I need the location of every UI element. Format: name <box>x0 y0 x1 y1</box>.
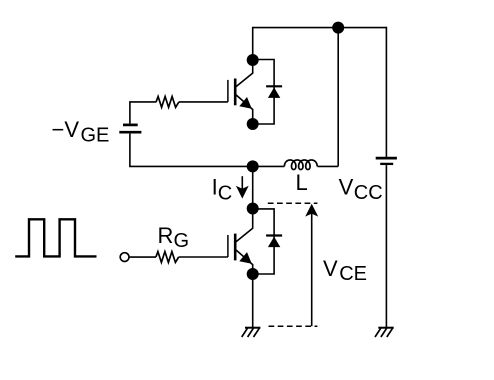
svg-text:CC: CC <box>354 182 383 204</box>
svg-text:G: G <box>174 230 190 252</box>
battery VCC negative plate (short) <box>380 163 393 165</box>
terminal input circle <box>120 253 129 262</box>
svg-text:V: V <box>339 175 354 200</box>
resistor R1 (upper gate) <box>156 97 179 108</box>
dashed reference bottom (ground level) <box>269 325 318 327</box>
wire RG to Q2 gate <box>179 256 228 258</box>
wire inductor to riser <box>317 165 338 167</box>
wire node to inductor <box>253 165 285 167</box>
IGBT Q1 channel bar <box>234 79 237 106</box>
wire top rail to upper collector <box>252 27 254 60</box>
svg-text:L: L <box>296 170 308 195</box>
IGBT Q2 gate bar <box>227 235 229 257</box>
node upper emitter <box>247 118 259 130</box>
wire inductor right riser <box>337 28 339 167</box>
dashed reference top (collector level) <box>268 202 318 204</box>
measurement arrow VCE <box>311 214 313 327</box>
IGBT Q1 gate bar <box>227 80 229 102</box>
wire upper gate lead <box>130 102 156 124</box>
current arrow IC <box>241 176 243 189</box>
svg-text:R: R <box>158 223 174 248</box>
node emitter-inductor node <box>247 160 259 172</box>
svg-text:−V: −V <box>52 117 80 142</box>
svg-text:V: V <box>323 256 338 281</box>
IGBT Q1 emitter lead <box>236 95 253 124</box>
battery -VGE negative plate (short) <box>123 124 138 127</box>
svg-text:GE: GE <box>81 124 110 146</box>
wire resistor R1 to Q1 gate <box>179 101 228 103</box>
wire Q2 emitter to ground <box>252 274 254 327</box>
battery VCC positive plate (long) <box>376 157 397 160</box>
battery -VGE positive plate (long) <box>119 131 141 134</box>
svg-text:CE: CE <box>339 263 367 285</box>
node lower collector <box>247 203 259 215</box>
node upper collector <box>247 54 259 66</box>
wire node to lower collector <box>252 166 254 208</box>
ground emitter ground <box>245 327 260 329</box>
diode D1 branch wire <box>253 60 274 125</box>
wire VCC battery to ground <box>385 165 387 327</box>
pulse waveform symbol <box>15 219 96 256</box>
wire terminal to RG <box>129 256 156 258</box>
IGBT Q2 collector lead <box>236 209 253 242</box>
diode D2 branch wire <box>253 209 274 274</box>
wire VCC right riser upper <box>385 27 387 157</box>
node top rail junction <box>332 22 344 34</box>
node lower emitter <box>247 268 259 280</box>
IGBT Q1 emitter arrow <box>239 97 252 109</box>
svg-text:C: C <box>218 182 232 204</box>
resistor RG <box>156 252 179 263</box>
diode D1 cathode bar <box>266 85 282 87</box>
wire top rail <box>253 27 387 29</box>
IGBT Q1 collector lead <box>236 60 253 87</box>
svg-text:I: I <box>212 174 218 199</box>
IGBT Q2 emitter arrow <box>239 252 252 264</box>
IGBT Q2 emitter lead <box>236 250 253 274</box>
diode D1 triangle <box>268 87 280 98</box>
diode D2 triangle <box>268 237 280 248</box>
ground VCC ground <box>378 327 393 329</box>
inductor L <box>284 160 317 170</box>
diode D2 cathode bar <box>266 234 282 236</box>
IGBT Q2 channel bar <box>234 234 237 261</box>
wire battery -VGE bottom to node <box>130 134 253 167</box>
